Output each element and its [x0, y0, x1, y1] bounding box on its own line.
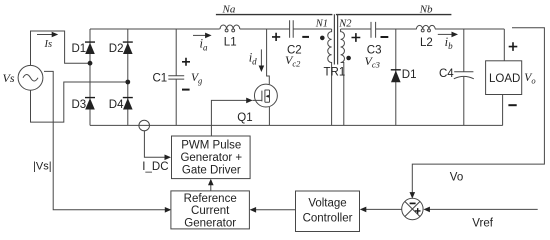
- svg-text:Vo: Vo: [450, 171, 463, 183]
- svg-text:D1: D1: [402, 69, 417, 81]
- svg-text:Generator +: Generator +: [180, 152, 242, 164]
- svg-text:Voltage: Voltage: [308, 198, 346, 210]
- svg-text:L1: L1: [224, 37, 237, 49]
- svg-text:TR1: TR1: [324, 66, 346, 78]
- svg-text:D1: D1: [72, 43, 87, 55]
- svg-text:Gate Driver: Gate Driver: [182, 165, 241, 177]
- svg-text:PWM Pulse: PWM Pulse: [181, 140, 241, 152]
- svg-text:N1: N1: [315, 18, 328, 29]
- svg-text:C1: C1: [153, 72, 168, 84]
- svg-text:Q1: Q1: [237, 112, 252, 124]
- svg-text:LOAD: LOAD: [489, 73, 520, 85]
- svg-text:Controller: Controller: [303, 213, 353, 225]
- svg-text:Current: Current: [191, 205, 230, 217]
- svg-text:L2: L2: [420, 37, 433, 49]
- svg-text:Vs: Vs: [3, 71, 15, 85]
- svg-text:C4: C4: [439, 68, 454, 80]
- svg-text:D4: D4: [109, 99, 124, 111]
- svg-text:Is: Is: [44, 39, 53, 50]
- svg-text:Vref: Vref: [472, 217, 493, 229]
- svg-text:D3: D3: [72, 99, 87, 111]
- svg-text:I_DC: I_DC: [142, 161, 168, 173]
- svg-text:Na: Na: [222, 3, 236, 15]
- svg-text:Reference: Reference: [184, 193, 237, 205]
- svg-text:D2: D2: [109, 43, 124, 55]
- svg-text:Nb: Nb: [419, 3, 433, 15]
- svg-text:Generator: Generator: [184, 217, 236, 229]
- svg-text:|Vs|: |Vs|: [33, 161, 52, 173]
- svg-text:N2: N2: [338, 18, 352, 29]
